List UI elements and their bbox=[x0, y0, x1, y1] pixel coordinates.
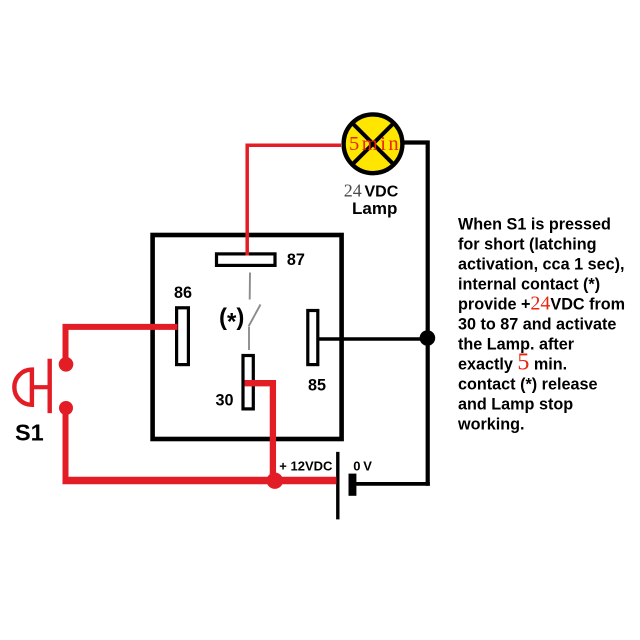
terminal 87 pad bbox=[217, 254, 276, 266]
svg-text:85: 85 bbox=[308, 377, 326, 395]
relay body K1 bbox=[153, 235, 342, 439]
supply positive plate (long) bbox=[336, 452, 339, 520]
switch S1 actuator bar bbox=[48, 359, 52, 413]
svg-text:S1: S1 bbox=[15, 420, 44, 446]
supply negative plate (short thick) bbox=[349, 474, 357, 496]
wire: black from terminal 85 to right rail bbox=[318, 337, 430, 340]
svg-text:When S1 is pressed: When S1 is pressed bbox=[458, 216, 611, 234]
svg-text:(*): (*) bbox=[219, 304, 244, 336]
switch S1 stem bbox=[32, 385, 48, 389]
svg-text:0 V: 0 V bbox=[353, 459, 372, 474]
internal contact lead to 30 bbox=[248, 327, 250, 350]
svg-text:internal contact (*): internal contact (*) bbox=[458, 276, 600, 294]
svg-text:contact (*) release: contact (*) release bbox=[458, 376, 597, 394]
wire: red from S1 lower terminal down to bottom run bbox=[63, 408, 69, 481]
wire: black from lamp to right rail and down bbox=[404, 143, 428, 486]
switch S1 button cap bbox=[14, 370, 32, 405]
terminal 30 pad bbox=[243, 356, 253, 409]
svg-text:86: 86 bbox=[174, 284, 192, 302]
svg-text:87: 87 bbox=[287, 251, 305, 269]
svg-text:activation, cca 1 sec),: activation, cca 1 sec), bbox=[458, 256, 624, 274]
svg-text:30 to 87 and activate: 30 to 87 and activate bbox=[458, 316, 616, 334]
terminal 85 pad bbox=[308, 311, 318, 365]
svg-text:VDC: VDC bbox=[365, 183, 399, 200]
lamp cross stroke 1 bbox=[352, 123, 394, 165]
svg-text:working.: working. bbox=[457, 416, 525, 434]
svg-text:Lamp: Lamp bbox=[352, 199, 397, 218]
node: black junction on right rail bbox=[420, 330, 436, 346]
svg-text:the Lamp. after: the Lamp. after bbox=[458, 336, 575, 354]
wire: red bottom run to +12VDC supply bbox=[63, 477, 337, 484]
description text block bbox=[457, 216, 625, 434]
lamp L1 body bbox=[344, 114, 403, 173]
svg-text:provide +24VDC from: provide +24VDC from bbox=[458, 293, 625, 315]
terminal 86 pad bbox=[177, 308, 189, 365]
wire: black from 0V supply bar to right rail bbox=[355, 482, 430, 486]
svg-text:24: 24 bbox=[344, 180, 362, 200]
svg-text:and Lamp stop: and Lamp stop bbox=[458, 396, 573, 414]
internal contact blade (open switch) bbox=[249, 305, 261, 327]
wire: red from lamp down to terminal 87 bbox=[247, 145, 341, 255]
svg-text:for short (latching: for short (latching bbox=[458, 236, 597, 254]
lamp cross stroke 2 bbox=[352, 123, 394, 165]
wire: red from terminal 30 right and down bbox=[245, 383, 273, 476]
svg-text:30: 30 bbox=[216, 392, 234, 410]
svg-text:5min: 5min bbox=[349, 133, 401, 155]
wire: red from S1 upper terminal to terminal 86 bbox=[66, 327, 178, 360]
node: red junction at +12VDC bbox=[267, 473, 283, 489]
internal contact lead from 87 bbox=[249, 273, 251, 300]
svg-text:+ 12VDC: + 12VDC bbox=[279, 459, 333, 474]
switch S1 upper contact dot bbox=[59, 357, 74, 372]
switch S1 lower contact dot bbox=[59, 401, 73, 415]
